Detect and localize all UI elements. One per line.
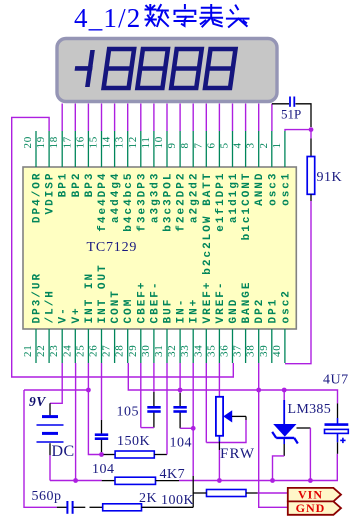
svg-text:BUF: BUF bbox=[163, 298, 175, 324]
wire pin23 V- to battery top bbox=[50, 363, 62, 403]
pot bottom lead black part bbox=[218, 442, 220, 451]
wire pin30 CBEF- down bbox=[153, 363, 155, 392]
svg-text:8: 8 bbox=[179, 142, 191, 148]
title chinese characters bbox=[146, 5, 169, 26]
svg-text:IN-: IN- bbox=[176, 298, 188, 324]
svg-text:osc3: osc3 bbox=[267, 172, 279, 206]
svg-text:IN+: IN+ bbox=[189, 298, 201, 324]
zener diode LM385 triangle bbox=[273, 424, 296, 437]
port flag GND bbox=[288, 501, 341, 514]
svg-text:V-: V- bbox=[58, 306, 70, 323]
svg-text:25: 25 bbox=[74, 344, 86, 357]
resistor R 4K7 left lead bbox=[102, 480, 115, 482]
capacitor 104b bottom lead bbox=[179, 413, 181, 429]
svg-text:a3g3d3: a3g3d3 bbox=[149, 172, 161, 224]
svg-text:FRW: FRW bbox=[220, 446, 255, 462]
svg-text:5: 5 bbox=[219, 142, 231, 148]
svg-text:4_1/2: 4_1/2 bbox=[74, 3, 142, 33]
wire pin19 to left bus and bus A to pin36 bbox=[12, 117, 234, 377]
svg-text:a1d1g1: a1d1g1 bbox=[228, 172, 240, 224]
svg-text:b3c3POL: b3c3POL bbox=[163, 172, 175, 232]
resistor R 150K body bbox=[115, 451, 154, 458]
svg-text:e1f1DP1: e1f1DP1 bbox=[215, 172, 227, 232]
svg-text:COM: COM bbox=[123, 298, 135, 324]
svg-text:BP3: BP3 bbox=[84, 172, 96, 198]
svg-text:51P: 51P bbox=[281, 107, 301, 122]
resistor R1 91K body bbox=[307, 157, 315, 195]
resistor R 4K7 body bbox=[115, 477, 156, 484]
svg-text:INT OUT: INT OUT bbox=[97, 263, 109, 323]
wire pin38 DP2 down to GND flag bbox=[259, 363, 288, 507]
LCD digits -18888 bbox=[72, 49, 235, 88]
svg-text:9: 9 bbox=[166, 142, 178, 148]
wire 91K to pin40 osc2 bbox=[285, 201, 311, 364]
capacitor C 560p bbox=[66, 501, 68, 514]
svg-text:b4c4bc5: b4c4bc5 bbox=[123, 172, 135, 232]
svg-text:VDISP: VDISP bbox=[45, 172, 57, 215]
svg-text:/L/H: /L/H bbox=[45, 289, 57, 323]
svg-text:LM385: LM385 bbox=[288, 402, 332, 417]
svg-text:16: 16 bbox=[74, 136, 86, 149]
svg-text:a4d4g4: a4d4g4 bbox=[110, 172, 122, 224]
svg-text:f2e2DP2: f2e2DP2 bbox=[176, 172, 188, 232]
svg-text:20: 20 bbox=[22, 136, 34, 149]
svg-text:22: 22 bbox=[35, 344, 47, 357]
svg-text:VREF-: VREF- bbox=[215, 280, 227, 323]
capacitor C1 51P bbox=[289, 97, 291, 107]
svg-text:33: 33 bbox=[179, 344, 191, 357]
wire 105 bottom to pin29 bbox=[141, 427, 154, 429]
svg-text:34: 34 bbox=[192, 344, 204, 357]
svg-text:2: 2 bbox=[258, 142, 270, 148]
svg-text:12: 12 bbox=[127, 136, 139, 149]
capacitor 560p left lead bbox=[57, 506, 67, 508]
svg-text:24: 24 bbox=[61, 344, 73, 357]
capacitor C 105 plates bbox=[147, 406, 160, 409]
svg-text:23: 23 bbox=[48, 344, 60, 357]
svg-text:9V: 9V bbox=[29, 394, 46, 409]
svg-text:DP4/OR: DP4/OR bbox=[32, 172, 44, 224]
IC pin stubs top bbox=[35, 131, 37, 167]
wire battery box left down to 560p bbox=[24, 390, 57, 507]
svg-text:104: 104 bbox=[170, 436, 193, 451]
svg-text:GND: GND bbox=[296, 501, 326, 515]
svg-text:13: 13 bbox=[114, 136, 126, 149]
svg-text:36: 36 bbox=[219, 344, 231, 357]
wire pin33 IN+ down bbox=[192, 363, 194, 476]
svg-text:6: 6 bbox=[205, 142, 217, 148]
zener cathode center lead down bbox=[283, 439, 285, 444]
svg-text:VREF+: VREF+ bbox=[202, 280, 214, 323]
junction node 104/150K bbox=[99, 452, 104, 457]
resistor 2K right lead to pin33 node bbox=[142, 506, 194, 508]
junction node osc1 bbox=[309, 127, 314, 132]
resistor R 91K top lead bbox=[310, 139, 312, 157]
100K left lead bbox=[193, 492, 206, 494]
capacitor 104 bottom lead bbox=[101, 440, 103, 452]
svg-text:26: 26 bbox=[88, 344, 100, 357]
wire pin34 VREF+ down bbox=[205, 363, 207, 443]
svg-text:560p: 560p bbox=[32, 489, 62, 504]
svg-text:BP2: BP2 bbox=[71, 172, 83, 198]
svg-text:105: 105 bbox=[117, 405, 140, 420]
main bottom rail V+ right part bbox=[179, 454, 337, 481]
zener diode LM385 cathode bar bbox=[276, 437, 294, 439]
svg-text:7: 7 bbox=[192, 142, 204, 148]
resistor 150K right lead bbox=[154, 454, 167, 456]
svg-text:2K: 2K bbox=[139, 491, 157, 506]
capacitor C 104 top lead bbox=[101, 420, 103, 434]
resistor R 2K body bbox=[103, 504, 142, 511]
wire pin24 V+ down to rail bbox=[75, 363, 77, 481]
capacitor C 104b plates bbox=[173, 406, 186, 409]
main bottom rail V+ left part bbox=[50, 480, 102, 482]
capacitor C 105 top lead bbox=[153, 392, 155, 406]
svg-text:17: 17 bbox=[61, 136, 73, 149]
100K right lead to VIN bbox=[246, 492, 258, 494]
resistor 4K7 right lead bbox=[156, 480, 180, 482]
svg-text:V+: V+ bbox=[71, 306, 83, 323]
svg-text:osc1: osc1 bbox=[280, 172, 292, 206]
capacitor C 104 plates bbox=[95, 433, 108, 436]
svg-text:11: 11 bbox=[140, 136, 152, 148]
svg-text:BP1: BP1 bbox=[58, 172, 70, 198]
svg-text:39: 39 bbox=[258, 344, 270, 357]
capacitor 4U7 plates polarized bbox=[325, 423, 349, 426]
zener diode D1 LM385 anode lead bbox=[283, 390, 285, 400]
svg-text:150K: 150K bbox=[117, 434, 150, 449]
resistor 150K left lead bbox=[104, 454, 116, 456]
capacitor C 104b top lead bbox=[179, 393, 181, 406]
wire pin25 INT IN down bbox=[87, 363, 89, 390]
svg-text:CBEF+: CBEF+ bbox=[136, 280, 148, 323]
resistor 2K left lead stub bbox=[90, 506, 103, 508]
svg-text:27: 27 bbox=[101, 344, 113, 357]
svg-text:19: 19 bbox=[35, 136, 47, 149]
svg-text:15: 15 bbox=[88, 136, 100, 149]
wiper wire to pin34 bbox=[232, 415, 246, 417]
svg-text:a2g2d2: a2g2d2 bbox=[189, 172, 201, 224]
wire bus segment battery box top bbox=[24, 389, 88, 391]
resistor 91K bottom lead bbox=[310, 194, 312, 201]
capacitor 105 bottom lead bbox=[153, 413, 155, 428]
svg-text:28: 28 bbox=[114, 344, 126, 357]
svg-text:40: 40 bbox=[271, 344, 283, 357]
wire pot bottom to rail bbox=[218, 450, 220, 481]
svg-text:CONT: CONT bbox=[110, 289, 122, 323]
svg-text:4U7: 4U7 bbox=[323, 373, 349, 388]
svg-text:30: 30 bbox=[140, 344, 152, 357]
capacitor 4U7 plus sign bbox=[340, 439, 345, 441]
wire 104b bottom to IN+ node bbox=[180, 427, 193, 429]
battery BT1 top lead bbox=[49, 403, 51, 416]
svg-text:4K7: 4K7 bbox=[160, 467, 186, 482]
svg-text:3: 3 bbox=[245, 142, 257, 148]
port flag VIN bbox=[288, 488, 341, 502]
svg-text:b1c1CONT: b1c1CONT bbox=[241, 172, 253, 241]
svg-text:TC7129: TC7129 bbox=[87, 240, 138, 255]
svg-text:DP1: DP1 bbox=[267, 298, 279, 324]
svg-text:29: 29 bbox=[127, 344, 139, 357]
wire pin2 osc3 up to 51P bbox=[271, 104, 273, 131]
wire pin1 osc1 to node bbox=[285, 130, 311, 139]
capacitor 51P right lead bbox=[296, 104, 312, 127]
op-amp/IC U1 TC7129 body bbox=[23, 167, 296, 329]
svg-text:10: 10 bbox=[153, 136, 165, 149]
svg-text:DP3/UR: DP3/UR bbox=[32, 272, 44, 324]
wire pin35 VREF- to pot top bbox=[218, 363, 220, 397]
potentiometer RP FRW body bbox=[216, 397, 223, 436]
svg-text:91K: 91K bbox=[317, 170, 343, 185]
svg-text:INT IN: INT IN bbox=[84, 272, 96, 324]
svg-text:35: 35 bbox=[205, 344, 217, 357]
svg-text:b2c2LOW BATT: b2c2LOW BATT bbox=[202, 172, 214, 275]
battery bottom lead bbox=[49, 443, 51, 455]
svg-text:CBEF-: CBEF- bbox=[149, 280, 161, 323]
svg-text:18: 18 bbox=[48, 136, 60, 149]
svg-text:GND: GND bbox=[228, 298, 240, 324]
wire pin26 INT OUT down bbox=[101, 363, 103, 420]
svg-text:104: 104 bbox=[92, 462, 115, 477]
capacitor 560p right lead stub bbox=[74, 506, 86, 508]
svg-text:ANND: ANND bbox=[254, 172, 266, 206]
svg-text:f4e4DP4: f4e4DP4 bbox=[97, 172, 109, 232]
wire pin25 node down to 104 row bbox=[88, 390, 101, 455]
svg-text:f3e3DP3: f3e3DP3 bbox=[136, 172, 148, 232]
svg-text:VIN: VIN bbox=[298, 488, 323, 502]
capacitor 4U7 bottom lead bbox=[337, 433, 339, 442]
wire pin29 CBEF+ down bbox=[140, 363, 142, 428]
svg-text:DP2: DP2 bbox=[254, 298, 266, 324]
battery BT1 9V plates bbox=[42, 415, 58, 418]
wire battery minus to rail bbox=[49, 455, 51, 480]
svg-text:37: 37 bbox=[232, 344, 244, 357]
IC pin stubs bottom bbox=[35, 329, 37, 363]
svg-text:osc2: osc2 bbox=[280, 289, 292, 323]
svg-text:14: 14 bbox=[101, 136, 113, 149]
svg-text:21: 21 bbox=[22, 344, 34, 357]
resistor R 100K body bbox=[207, 490, 247, 497]
LCD display module bbox=[57, 39, 277, 102]
svg-text:4: 4 bbox=[232, 142, 244, 148]
wire pin32 IN- down bbox=[179, 363, 181, 393]
wires LCD to IC top pins bbox=[61, 104, 63, 132]
svg-text:31: 31 bbox=[153, 344, 165, 357]
wire node IN+ vertical black part bbox=[192, 476, 194, 507]
svg-text:38: 38 bbox=[245, 344, 257, 357]
wire pin31 BUF down to 150K bbox=[166, 363, 168, 455]
svg-text:100K: 100K bbox=[161, 493, 194, 508]
pot bottom lead bbox=[218, 436, 220, 442]
zener cathode right lead bbox=[297, 427, 311, 429]
svg-text:32: 32 bbox=[166, 344, 178, 357]
wire pin28 COM down and bus B bbox=[128, 363, 337, 403]
potentiometer wiper arrow bbox=[224, 411, 231, 421]
svg-text:BANGE: BANGE bbox=[241, 280, 253, 323]
svg-text:DC: DC bbox=[52, 443, 75, 460]
svg-text:1: 1 bbox=[271, 142, 283, 148]
capacitor C 4U7 top lead bbox=[337, 403, 339, 418]
capacitor C 51P left lead bbox=[272, 103, 289, 105]
